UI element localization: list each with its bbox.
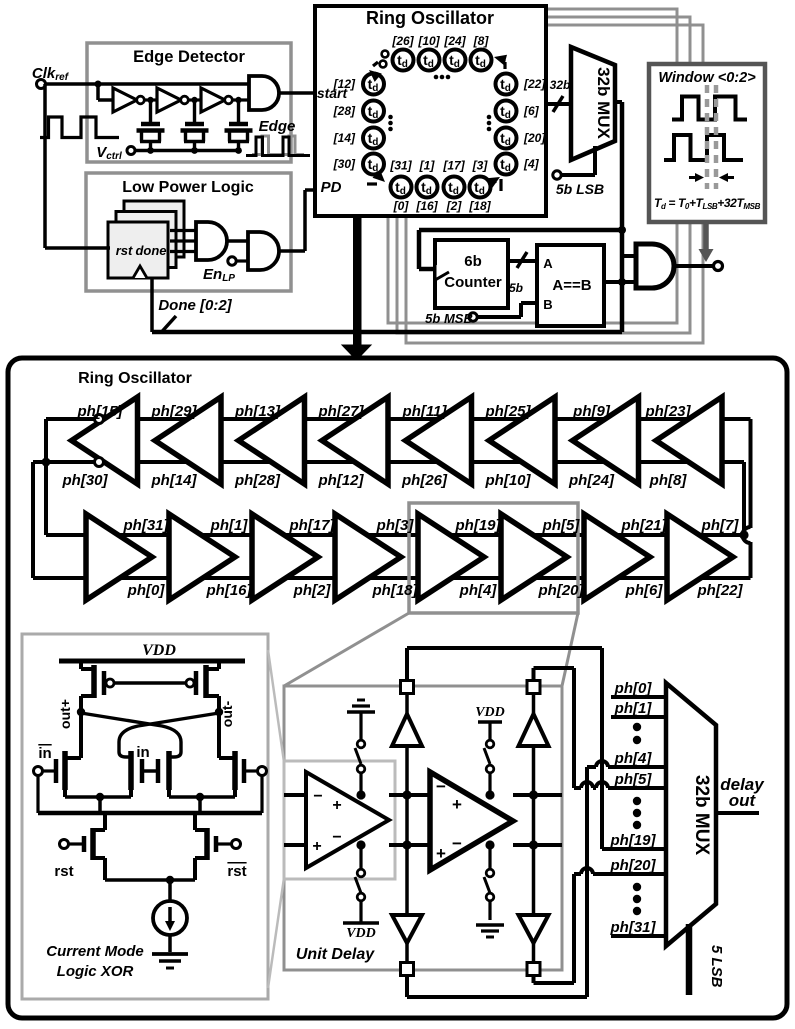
svg-text:32b: 32b <box>550 78 571 92</box>
svg-text:[0]: [0] <box>393 199 410 213</box>
svg-text:[2]: [2] <box>446 199 463 213</box>
svg-text:ph[10]: ph[10] <box>485 472 532 489</box>
svg-text:[30]: [30] <box>333 157 356 171</box>
svg-text:Window <0:2>: Window <0:2> <box>658 70 756 86</box>
svg-text:ph[23]: ph[23] <box>645 403 692 420</box>
svg-text:ph[11]: ph[11] <box>402 403 448 420</box>
svg-text:ph[6]: ph[6] <box>625 582 664 599</box>
svg-text:ph[1]: ph[1] <box>210 517 249 534</box>
svg-text:−: − <box>436 777 446 796</box>
svg-text:ph[18]: ph[18] <box>372 582 419 599</box>
svg-text:[22]: [22] <box>523 77 546 91</box>
svg-text:[31]: [31] <box>389 159 412 173</box>
svg-text:ph[0]: ph[0] <box>127 582 166 599</box>
svg-text:B: B <box>543 297 552 312</box>
svg-text:Edge Detector: Edge Detector <box>133 48 245 66</box>
svg-text:5b: 5b <box>509 281 523 295</box>
svg-text:ph[30]: ph[30] <box>62 472 109 489</box>
svg-text:ph[12]: ph[12] <box>318 472 365 489</box>
svg-text:Logic XOR: Logic XOR <box>57 963 134 980</box>
svg-text:ph[15]: ph[15] <box>77 403 124 420</box>
svg-text:[1]: [1] <box>419 159 436 173</box>
svg-text:ph[25]: ph[25] <box>485 403 532 420</box>
svg-text:5b LSB: 5b LSB <box>556 181 604 197</box>
svg-text:ph[3]: ph[3] <box>376 517 415 534</box>
svg-text:[8]: [8] <box>473 34 490 48</box>
svg-text:out-: out- <box>219 700 235 727</box>
svg-text:5b MSB: 5b MSB <box>425 311 473 326</box>
svg-text:ph[8]: ph[8] <box>649 472 688 489</box>
svg-text:−: − <box>313 788 322 805</box>
svg-text:rst: rst <box>116 243 133 258</box>
svg-text:32b MUX: 32b MUX <box>691 775 712 856</box>
svg-text:ph[19]: ph[19] <box>455 517 502 534</box>
svg-text:ph[1]: ph[1] <box>614 700 653 717</box>
svg-text:Unit Delay: Unit Delay <box>296 946 375 963</box>
svg-text:in: in <box>38 745 51 762</box>
svg-text:ph[16]: ph[16] <box>206 582 253 599</box>
svg-text:[16]: [16] <box>415 199 438 213</box>
svg-text:5 LSB: 5 LSB <box>708 945 725 988</box>
svg-text:[3]: [3] <box>472 159 489 173</box>
svg-text:[4]: [4] <box>523 157 540 171</box>
svg-text:Current Mode: Current Mode <box>46 943 144 960</box>
svg-text:A: A <box>543 256 553 271</box>
svg-text:done: done <box>135 243 166 258</box>
svg-text:ph[19]: ph[19] <box>610 832 657 849</box>
svg-text:ph[31]: ph[31] <box>123 517 170 534</box>
svg-text:32b MUX: 32b MUX <box>594 67 613 139</box>
svg-text:ph[20]: ph[20] <box>610 857 657 874</box>
svg-text:+: + <box>452 795 462 814</box>
svg-text:out: out <box>729 791 757 810</box>
svg-text:Counter: Counter <box>444 274 502 291</box>
svg-text:ph[21]: ph[21] <box>621 517 668 534</box>
svg-text:Low Power Logic: Low Power Logic <box>122 179 254 196</box>
svg-text:+: + <box>436 844 446 863</box>
svg-text:ph[13]: ph[13] <box>234 403 281 420</box>
svg-text:ph[9]: ph[9] <box>572 403 611 420</box>
svg-text:ph[22]: ph[22] <box>697 582 744 599</box>
svg-text:[20]: [20] <box>523 131 546 145</box>
svg-text:rst: rst <box>227 863 246 880</box>
svg-text:rst: rst <box>54 863 73 880</box>
svg-text:ph[0]: ph[0] <box>614 680 653 697</box>
svg-text:+: + <box>332 797 341 814</box>
svg-text:ph[31]: ph[31] <box>610 919 657 936</box>
svg-text:[17]: [17] <box>442 159 465 173</box>
svg-text:A==B: A==B <box>552 277 591 294</box>
svg-text:VDD: VDD <box>346 926 376 941</box>
svg-text:VDD: VDD <box>475 705 505 720</box>
svg-text:out+: out+ <box>57 699 73 729</box>
svg-text:[6]: [6] <box>523 104 540 118</box>
svg-text:ph[7]: ph[7] <box>701 517 740 534</box>
svg-text:ph[2]: ph[2] <box>293 582 332 599</box>
svg-text:[18]: [18] <box>468 199 491 213</box>
svg-text:ph[26]: ph[26] <box>401 472 448 489</box>
svg-text:Ring Oscillator: Ring Oscillator <box>366 8 494 28</box>
svg-text:[10]: [10] <box>417 34 440 48</box>
svg-text:+: + <box>312 838 321 855</box>
svg-text:−: − <box>332 829 341 846</box>
svg-text:[14]: [14] <box>333 131 356 145</box>
svg-text:ph[14]: ph[14] <box>151 472 198 489</box>
svg-text:in: in <box>136 744 149 761</box>
svg-text:Ring Oscillator: Ring Oscillator <box>78 370 192 387</box>
svg-text:ph[29]: ph[29] <box>151 403 198 420</box>
svg-text:ph[24]: ph[24] <box>568 472 615 489</box>
svg-text:VDD: VDD <box>142 642 176 659</box>
svg-text:ph[20]: ph[20] <box>538 582 585 599</box>
svg-text:ph[4]: ph[4] <box>459 582 498 599</box>
svg-text:[24]: [24] <box>443 34 466 48</box>
svg-text:ph[28]: ph[28] <box>234 472 281 489</box>
svg-text:[28]: [28] <box>333 104 356 118</box>
svg-text:−: − <box>452 834 462 853</box>
svg-text:Edge: Edge <box>259 118 296 135</box>
svg-text:ph[27]: ph[27] <box>318 403 365 420</box>
svg-text:Done [0:2]: Done [0:2] <box>158 297 232 314</box>
svg-text:PD: PD <box>321 179 342 196</box>
svg-text:ph[5]: ph[5] <box>614 771 653 788</box>
svg-text:start: start <box>317 85 349 101</box>
svg-text:ph[17]: ph[17] <box>289 517 336 534</box>
svg-text:ph[5]: ph[5] <box>542 517 581 534</box>
svg-text:ph[4]: ph[4] <box>614 750 653 767</box>
svg-text:6b: 6b <box>464 253 482 270</box>
svg-text:[26]: [26] <box>391 34 414 48</box>
